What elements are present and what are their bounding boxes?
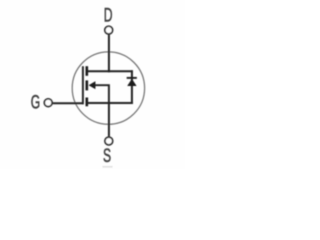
wire: top rail (drain rail) bbox=[86, 70, 133, 72]
faint crop artifact below S bbox=[103, 166, 113, 168]
pin terminal S circle bbox=[105, 137, 113, 145]
wire: source lead from bottom rail to S terminal bbox=[108, 103, 110, 136]
channel bar bottom segment (source region) bbox=[86, 98, 89, 107]
svg-text:G: G bbox=[31, 92, 40, 114]
svg-text:D: D bbox=[104, 5, 113, 27]
body diode D1 anode triangle bbox=[128, 79, 137, 86]
pin terminal D circle bbox=[105, 26, 113, 34]
pin terminal G circle bbox=[44, 99, 52, 107]
channel bar middle segment (body region) bbox=[86, 80, 89, 90]
wire: drain lead from D terminal to top rail bbox=[108, 35, 110, 73]
body diode D1 cathode bar bbox=[127, 77, 137, 79]
transistor Q1 envelope circle bbox=[72, 52, 144, 124]
wire: bottom rail (source rail) bbox=[86, 102, 133, 104]
gate bar G plate bbox=[82, 66, 84, 104]
wire: body rail from arrow to centre column bbox=[95, 85, 109, 103]
body arrow (N-channel, pointing to gate) bbox=[89, 82, 95, 89]
channel bar top segment (drain region) bbox=[86, 66, 89, 76]
svg-text:S: S bbox=[103, 145, 111, 167]
wire: gate lead from G terminal to gate bar bbox=[53, 102, 84, 104]
body diode D1 vertical lead bbox=[131, 70, 133, 104]
